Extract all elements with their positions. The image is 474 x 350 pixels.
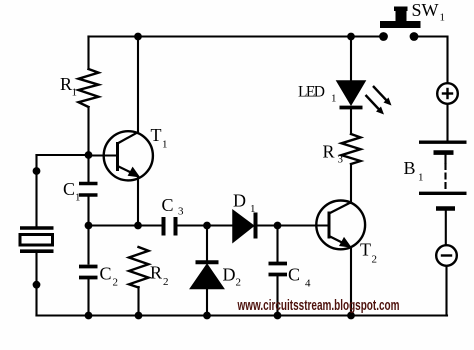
node crystal bottom	[33, 281, 41, 289]
battery B1 plates	[419, 142, 467, 208]
wire C2 to bottom	[87, 280, 89, 316]
resistor R2	[129, 247, 149, 288]
node D2 top	[203, 222, 211, 230]
battery minus terminal	[436, 245, 457, 266]
label C4	[288, 265, 311, 290]
node T1 emitter R2	[134, 222, 142, 230]
svg-text:2: 2	[113, 277, 119, 289]
svg-text:D: D	[223, 265, 236, 285]
svg-text:T: T	[360, 240, 371, 260]
wire T1 collector	[137, 37, 139, 134]
node C1 C2 middle	[85, 222, 93, 230]
wire left column upper	[87, 37, 89, 70]
wire minus circle to bottom corner	[445, 267, 447, 316]
wire crystal branch upper	[35, 155, 37, 226]
node C4 top	[274, 222, 282, 230]
wire LED to R3	[350, 110, 352, 135]
node top T1 collector	[134, 33, 142, 41]
wire battery stub to minus circle	[445, 211, 447, 245]
node top LED branch	[347, 33, 355, 41]
label LED1	[298, 84, 337, 105]
wire battery stub mid upper	[444, 155, 446, 164]
svg-text:C: C	[63, 179, 75, 199]
label C1	[63, 179, 81, 204]
svg-text:1: 1	[331, 93, 337, 105]
label R1	[60, 74, 77, 99]
LED light arrows	[366, 86, 389, 111]
transistor T2	[316, 201, 365, 250]
svg-text:1: 1	[162, 139, 168, 151]
wire middle rail C3 to D1	[178, 224, 233, 226]
node crystal top	[33, 167, 41, 175]
svg-text:1: 1	[418, 172, 424, 184]
node T1 base / R1	[85, 151, 93, 159]
svg-text:LED: LED	[298, 84, 325, 101]
svg-text:R: R	[60, 74, 72, 94]
LED LED1	[337, 81, 365, 108]
svg-text:www.circuitsstream.blogspot.co: www.circuitsstream.blogspot.com	[237, 298, 400, 314]
node bottom T2 emitter	[347, 312, 355, 320]
label C3	[162, 195, 185, 218]
label R3	[323, 142, 344, 166]
svg-text:SW: SW	[412, 0, 439, 20]
svg-text:T: T	[151, 125, 162, 145]
svg-text:1: 1	[72, 87, 78, 99]
svg-text:1: 1	[75, 192, 81, 204]
label T2	[360, 240, 377, 266]
wire R3 to T2 collector	[350, 164, 352, 203]
svg-text:2: 2	[372, 254, 378, 266]
svg-text:B: B	[404, 158, 416, 178]
wire R2 bottom lead	[137, 287, 139, 316]
svg-text:R: R	[323, 142, 335, 162]
svg-text:C: C	[100, 264, 112, 284]
crystal XTAL	[20, 228, 54, 251]
battery dashed section	[444, 164, 446, 190]
svg-text:2: 2	[163, 276, 169, 288]
wire C4 branch lower	[276, 277, 278, 316]
wire crystal branch lower	[35, 253, 37, 316]
svg-text:2: 2	[236, 277, 242, 289]
capacitor C3	[164, 217, 176, 236]
battery plus terminal	[437, 83, 458, 104]
svg-text:C: C	[162, 195, 174, 215]
svg-text:3: 3	[178, 206, 184, 218]
wire middle rail D1 to T2 base	[258, 224, 330, 226]
wire LED branch top	[350, 37, 352, 81]
wire top rail left	[89, 35, 384, 37]
svg-text:D: D	[233, 191, 246, 211]
svg-text:R: R	[150, 263, 162, 283]
diode D1	[233, 211, 256, 243]
svg-text:4: 4	[305, 278, 311, 290]
node bottom x88	[85, 312, 93, 320]
transistor T1	[89, 131, 153, 180]
label SW1	[412, 0, 446, 24]
wire bottom rail	[37, 314, 448, 316]
capacitor C4	[269, 264, 288, 275]
label T1	[151, 125, 168, 151]
label D1	[233, 191, 256, 216]
wire D2 branch lower	[206, 289, 208, 316]
label B1	[404, 158, 424, 184]
wire C1 to C2	[87, 197, 89, 264]
wire C4 branch upper	[276, 226, 278, 262]
wire battery stub top	[446, 105, 448, 141]
svg-text:1: 1	[440, 12, 446, 24]
wire D2 branch upper	[206, 226, 208, 261]
node bottom C4	[274, 312, 282, 320]
capacitor C1	[79, 184, 98, 196]
wire middle rail left	[89, 224, 162, 226]
pushbutton SW1	[379, 7, 420, 41]
resistor R1	[79, 69, 99, 107]
svg-text:3: 3	[338, 154, 344, 166]
svg-text:C: C	[288, 265, 300, 285]
svg-text:1: 1	[250, 203, 256, 215]
wire T2 emitter to bottom	[350, 248, 352, 316]
wire crystal link	[37, 154, 89, 156]
label C2	[100, 264, 119, 289]
label R2	[150, 263, 169, 289]
resistor R3	[342, 134, 361, 164]
wire T1 emitter to middle rail	[137, 177, 139, 226]
capacitor C2	[79, 267, 98, 278]
node bottom R2	[135, 312, 143, 320]
wire R1 to C1	[87, 107, 89, 182]
label D2	[223, 265, 242, 289]
wire top rail right to battery	[414, 37, 448, 84]
diode D2	[191, 262, 224, 288]
node bottom D2	[203, 312, 211, 320]
